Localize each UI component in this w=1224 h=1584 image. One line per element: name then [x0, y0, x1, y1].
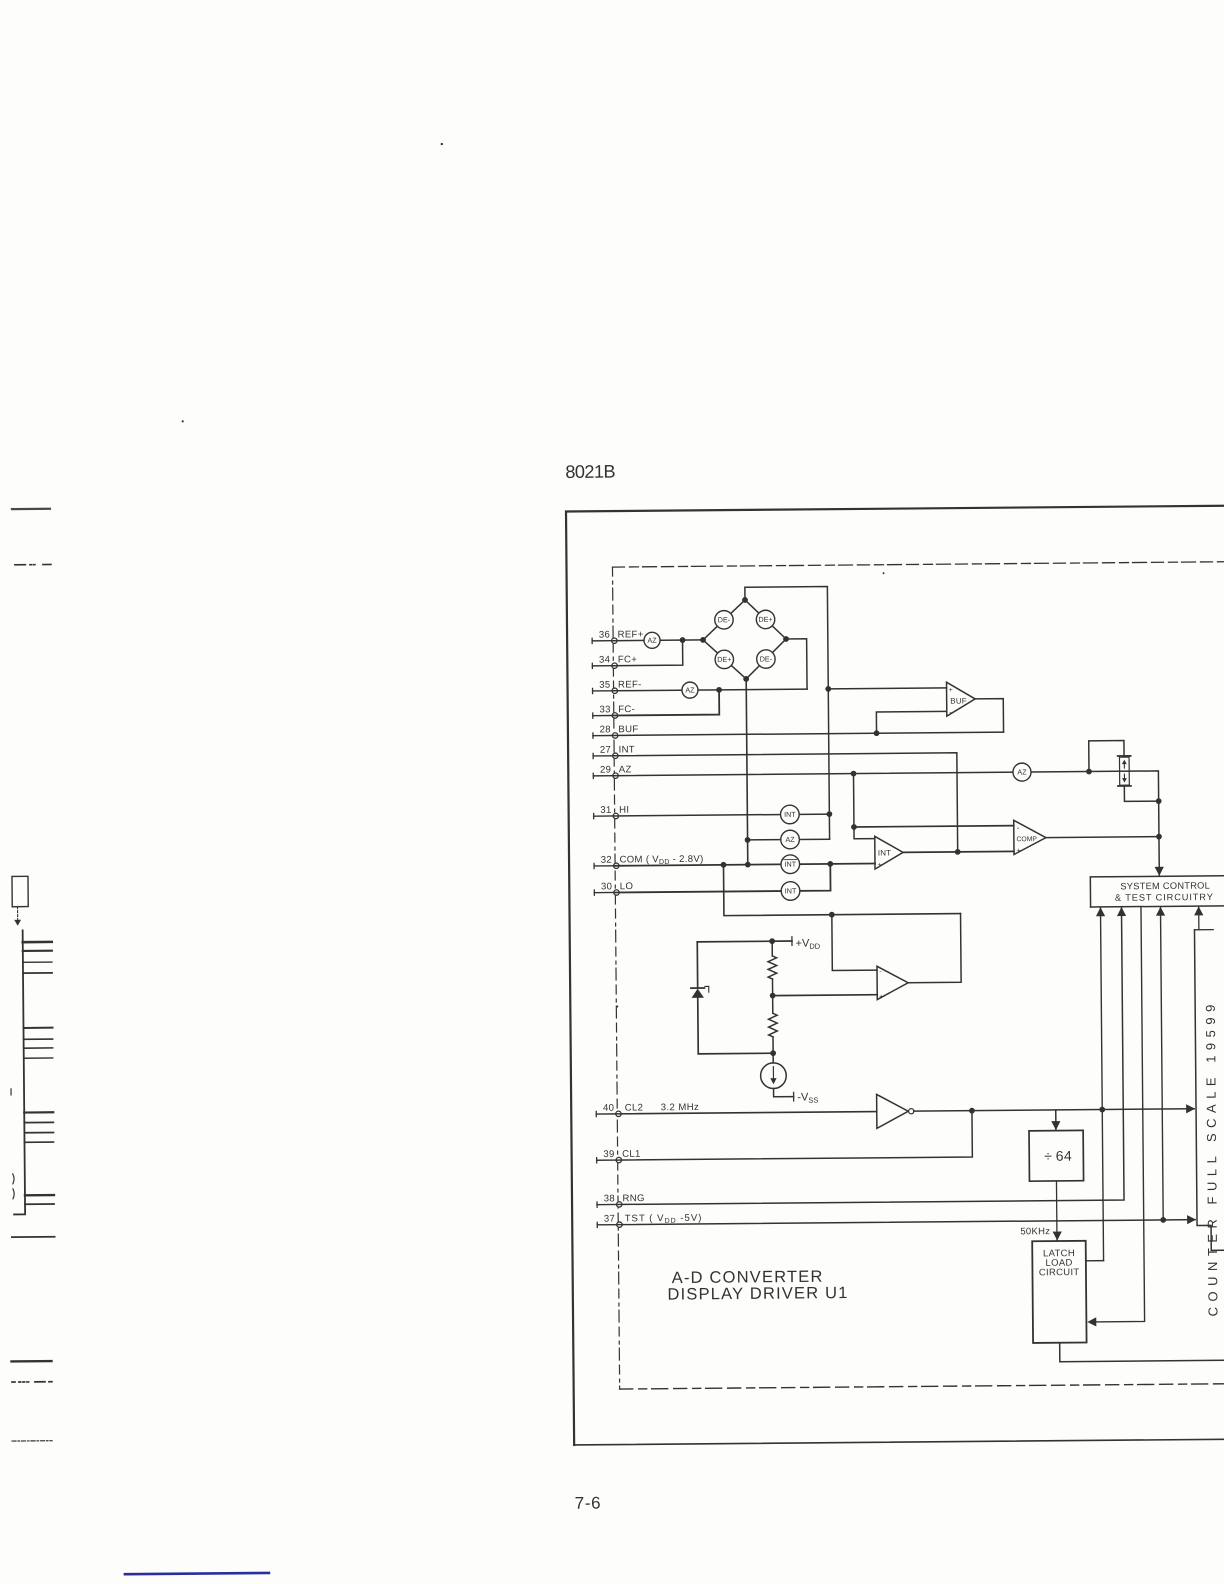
diode CR (zener) [691, 987, 704, 989]
svg-text:27: 27 [600, 745, 611, 756]
blue underline mark [125, 1573, 269, 1574]
svg-text:SYSTEM CONTROL: SYSTEM CONTROL [1120, 881, 1210, 892]
pin 28 stub [592, 733, 594, 738]
resistor R upper [771, 941, 773, 956]
wire latch output [1060, 1341, 1224, 1362]
switch INT (LO) [781, 882, 800, 901]
wire pin35 REF- line [612, 689, 807, 691]
wire v1 stub into latch [1086, 1260, 1104, 1262]
svg-text:31: 31 [600, 805, 611, 816]
node pin27 to integrator output [955, 849, 961, 855]
wire pin28 BUF line [612, 732, 1003, 735]
pin 37 stub [596, 1222, 598, 1227]
margin tick 2 [23, 950, 52, 952]
svg-text:REF+: REF+ [618, 629, 644, 640]
svg-text:COMP: COMP [1016, 836, 1037, 843]
wire v4 control to TST [1160, 907, 1163, 1220]
power +VDD label [791, 937, 793, 946]
margin tick 1 [23, 941, 52, 944]
block SYSTEM CONTROL & TEST CIRCUITRY [1090, 876, 1224, 907]
wire clock output [914, 1109, 1194, 1111]
wire pin29 AZ line [613, 771, 1159, 806]
node J1 junction pin34/pin36 [680, 637, 686, 643]
svg-text:HI: HI [619, 805, 629, 816]
outer schematic border [566, 506, 1224, 1445]
margin fragment dashes2 [12, 1381, 52, 1383]
wire bridge edge L-B [703, 640, 746, 680]
op-amp INT [875, 836, 903, 869]
wire pin37 TST line [617, 1220, 1195, 1225]
margin tick 3 [23, 961, 52, 963]
svg-text:DE+: DE+ [717, 655, 731, 664]
node +VDD junction [769, 938, 775, 944]
margin tick 9 [24, 1111, 53, 1113]
pin 27 terminal circle [613, 753, 618, 758]
pin 35 stub [592, 688, 594, 693]
wire AZ switch parallel path [1089, 741, 1124, 772]
node HI junction [826, 811, 832, 817]
node J2 junction pin33/pin35 [716, 687, 722, 693]
svg-text:COUNTER FULL SCALE 19599: COUNTER FULL SCALE 19599 [1203, 999, 1221, 1316]
op-amp reference buffer [877, 966, 908, 1000]
svg-text:& TEST CIRCUITRY: & TEST CIRCUITRY [1115, 892, 1214, 903]
node bridge left [700, 637, 706, 643]
svg-text:AZ: AZ [1017, 767, 1027, 776]
node D3 [1156, 798, 1162, 804]
switch AZ (input) [781, 830, 800, 849]
svg-text:REF-: REF- [618, 679, 642, 690]
switch DE- (bottom right) [757, 650, 776, 669]
wire ref-amp plus input [773, 994, 878, 997]
svg-text:+: + [878, 862, 882, 869]
pin 29 stub [592, 773, 594, 778]
wire pin38 RNG line [614, 908, 1124, 1205]
svg-text:7-6: 7-6 [575, 1494, 602, 1513]
margin fragment line bottom2 [12, 1360, 52, 1363]
wire BUF + input [828, 688, 946, 689]
svg-text:AZ: AZ [785, 835, 795, 844]
pin 39 stub [596, 1158, 598, 1163]
wire v1 control to latch [1100, 908, 1103, 1261]
svg-text:50KHz: 50KHz [1020, 1226, 1050, 1237]
margin tick 11 [24, 1131, 53, 1133]
scan speck 2 [182, 420, 184, 422]
wire INT output to COMP + [903, 850, 1014, 853]
margin fragment block [12, 876, 28, 906]
svg-text:RNG: RNG [622, 1193, 644, 1204]
node COM A [721, 862, 727, 868]
wire pin32 COM line [614, 864, 875, 866]
margin tick 10 [24, 1121, 53, 1123]
node E [829, 912, 835, 918]
svg-text:33: 33 [599, 704, 610, 715]
node bridge bottom [743, 676, 749, 682]
pin 30 terminal circle [614, 890, 619, 895]
inverter clock buffer [877, 1094, 909, 1128]
pin 32 terminal circle [614, 863, 619, 868]
power -VSS label [774, 1088, 794, 1096]
node divider mid [770, 993, 776, 999]
pin 36 terminal circle [612, 638, 617, 643]
scan speck 4 [616, 1006, 618, 1008]
svg-text:+: + [1016, 848, 1020, 855]
svg-text:-: - [1017, 823, 1020, 832]
margin tick 4 [23, 972, 52, 974]
svg-text:BUF: BUF [950, 697, 967, 706]
IC boundary dashed box U1 [612, 562, 1224, 567]
wire pin40 CL2 line [616, 1112, 877, 1114]
pin 34 terminal circle [612, 663, 617, 668]
pin 33 terminal circle [612, 713, 617, 718]
diode label mark [705, 986, 709, 992]
wire E to ref-amp minus [832, 914, 877, 970]
node H [770, 1050, 776, 1056]
pin 32 stub [593, 863, 595, 868]
margin tick 8 [24, 1057, 53, 1059]
wire AZ to COMP minus riser [854, 773, 875, 838]
capacitor/switch component body [1119, 757, 1129, 785]
wire bridge top to buffer riser [745, 587, 830, 840]
svg-text:LO: LO [620, 881, 634, 892]
svg-text:8021B: 8021B [565, 462, 615, 482]
wire bridge right corner [786, 639, 807, 689]
wire component bottom to D3 [1124, 786, 1158, 802]
svg-text:28: 28 [600, 724, 611, 735]
svg-text:AZ: AZ [685, 685, 695, 694]
margin tick 7 [24, 1047, 53, 1049]
wire pin31 HI line [613, 814, 829, 816]
node bridge right [783, 636, 789, 642]
svg-text:CIRCUIT: CIRCUIT [1039, 1267, 1080, 1278]
svg-text:DE-: DE- [718, 615, 731, 624]
svg-text:36: 36 [599, 630, 610, 641]
svg-text:FC+: FC+ [618, 654, 637, 665]
wire ref-amp output feedback [908, 914, 962, 983]
wire pin34 FC+ line [612, 640, 683, 666]
margin tick 6 [24, 1038, 53, 1040]
svg-text:BUF: BUF [618, 724, 638, 735]
margin fragment line bottom1 [12, 1236, 55, 1238]
node D1 AZ branch [851, 771, 857, 777]
margin fragment dashes [15, 563, 51, 565]
svg-text:39: 39 [603, 1149, 614, 1160]
margin fragment bus with ticks [12, 930, 25, 1214]
switch DE+ (bottom left) [715, 650, 734, 669]
node COM C [827, 861, 833, 867]
svg-text:CL1: CL1 [622, 1149, 641, 1160]
switch AZ (REF-) [682, 682, 698, 698]
scan speck 1 [441, 143, 443, 145]
wire pin36 REF+ line [612, 639, 703, 642]
wire v3 control to latch strobe [1090, 907, 1144, 1322]
wire bridge edge L-T [703, 600, 746, 640]
pin 36 stub [591, 638, 593, 643]
svg-text:INT: INT [784, 860, 796, 869]
switch DE- (top left) [715, 611, 734, 630]
margin fragment line top [12, 508, 50, 511]
wire CL1 loop [616, 1111, 973, 1160]
pin 27 stub [592, 753, 594, 758]
node D4 comparator output junction [1156, 834, 1162, 840]
node J5 CL1 branch [969, 1108, 975, 1114]
pin 39 terminal circle [616, 1157, 621, 1162]
margin tick 14 [25, 1203, 54, 1205]
wire pin27 INT line [613, 753, 958, 855]
svg-text:DISPLAY DRIVER U1: DISPLAY DRIVER U1 [667, 1284, 848, 1304]
svg-text:INT: INT [619, 744, 635, 755]
node TST/v4 junction [1160, 1217, 1166, 1223]
pin 29 terminal circle [613, 773, 618, 778]
component up arrow [1123, 762, 1125, 768]
svg-text:DE-: DE- [760, 654, 773, 663]
svg-text:CL2: CL2 [625, 1102, 644, 1113]
wire D3 down to system control [1158, 801, 1161, 875]
switch DE+ (top right) [756, 610, 775, 629]
pin 33 stub [592, 713, 594, 718]
pin 37 terminal circle [617, 1222, 622, 1227]
current source [772, 1053, 774, 1063]
svg-text:40: 40 [603, 1103, 614, 1114]
switch AZ (comparator) [1013, 763, 1031, 781]
divide-by-64 block [1029, 1130, 1084, 1181]
scan speck 3 [883, 572, 885, 574]
wire pin30 LO line [614, 864, 831, 893]
svg-text:-VSS: -VSS [797, 1091, 818, 1104]
pin 40 stub [595, 1111, 597, 1116]
svg-text:INT: INT [784, 810, 796, 819]
pin 34 stub [591, 663, 593, 668]
margin tick 5 [23, 1027, 52, 1029]
pin 35 terminal circle [612, 688, 617, 693]
svg-text:34: 34 [599, 655, 611, 666]
svg-text:+: + [879, 994, 883, 1001]
wire top of zener loop [697, 940, 792, 943]
pin 28 terminal circle [612, 733, 617, 738]
node feedback junction on pin28 line [874, 730, 880, 736]
svg-text:÷: ÷ [1044, 1148, 1052, 1164]
svg-text:3.2 MHz: 3.2 MHz [661, 1102, 700, 1113]
wire v5 control to counter bus [1194, 907, 1213, 930]
node D5 [851, 824, 857, 830]
pin 38 terminal circle [617, 1202, 622, 1207]
svg-text:29: 29 [600, 765, 611, 776]
capacitor/switch component caps [1118, 755, 1131, 757]
op-amp BUF [947, 682, 976, 716]
margin tick 13 [25, 1194, 54, 1197]
wire AZ row [748, 838, 830, 841]
node D2 switch branch [1086, 769, 1092, 775]
pin 30 stub [593, 890, 595, 895]
op-amp COMP [1014, 820, 1046, 854]
pin 38 stub [596, 1202, 598, 1207]
node BUF+ branch on bridge riser [825, 686, 831, 692]
margin fragment dashdot [12, 1440, 52, 1442]
svg-text:AZ: AZ [647, 636, 657, 645]
wire COMP - input [854, 826, 1014, 827]
wire BUF - input feedback [876, 711, 947, 733]
pin 31 terminal circle [613, 813, 618, 818]
wire counter bus [1194, 929, 1224, 1250]
svg-text:32: 32 [601, 855, 612, 866]
node clock/v1 junction [1099, 1107, 1105, 1113]
wire bridge edge T-R [745, 600, 786, 640]
wire bridge edge B-R [746, 639, 787, 679]
svg-text:FC-: FC- [618, 704, 635, 715]
svg-text:-: - [949, 708, 952, 717]
svg-text:38: 38 [604, 1193, 615, 1204]
svg-text:INT: INT [785, 886, 797, 895]
margin tick 12 [24, 1141, 53, 1143]
pin 40 terminal circle [616, 1111, 621, 1116]
wire zener loop left/bottom [697, 941, 773, 1054]
svg-text:37: 37 [604, 1213, 615, 1224]
node bridge top [742, 597, 748, 603]
wire BUF output to pin28 line [975, 699, 1003, 733]
block LATCH LOAD CIRCUIT [1032, 1241, 1086, 1343]
svg-text:64: 64 [1056, 1148, 1073, 1164]
wire divider output 50KHz [1055, 1181, 1058, 1240]
svg-text:30: 30 [601, 881, 612, 892]
svg-text:+VDD: +VDD [796, 937, 821, 950]
switch AZ (REF+) [644, 632, 660, 648]
svg-text:AZ: AZ [619, 764, 632, 775]
wire bridge bottom vertical to COM [746, 679, 748, 865]
margin small marks [11, 1089, 14, 1199]
margin fragment arrow [17, 907, 19, 921]
node AZ row tee [745, 837, 751, 843]
node COM B bridge [745, 862, 751, 868]
switch INT (HI) [780, 805, 799, 824]
svg-text:+: + [949, 687, 953, 694]
svg-text:35: 35 [599, 680, 610, 691]
pin 31 stub [593, 814, 595, 819]
wire pin33 FC- line [612, 690, 719, 716]
wire divider input drop [1055, 1110, 1057, 1130]
wire COM to reference rail [723, 863, 960, 916]
component down arrow [1123, 774, 1125, 780]
switch INTbar (COM) [781, 855, 800, 874]
svg-text:DE+: DE+ [758, 615, 772, 624]
resistor R lower [772, 996, 774, 1014]
wire COMP output [1046, 836, 1159, 839]
svg-text:INT: INT [878, 848, 892, 857]
